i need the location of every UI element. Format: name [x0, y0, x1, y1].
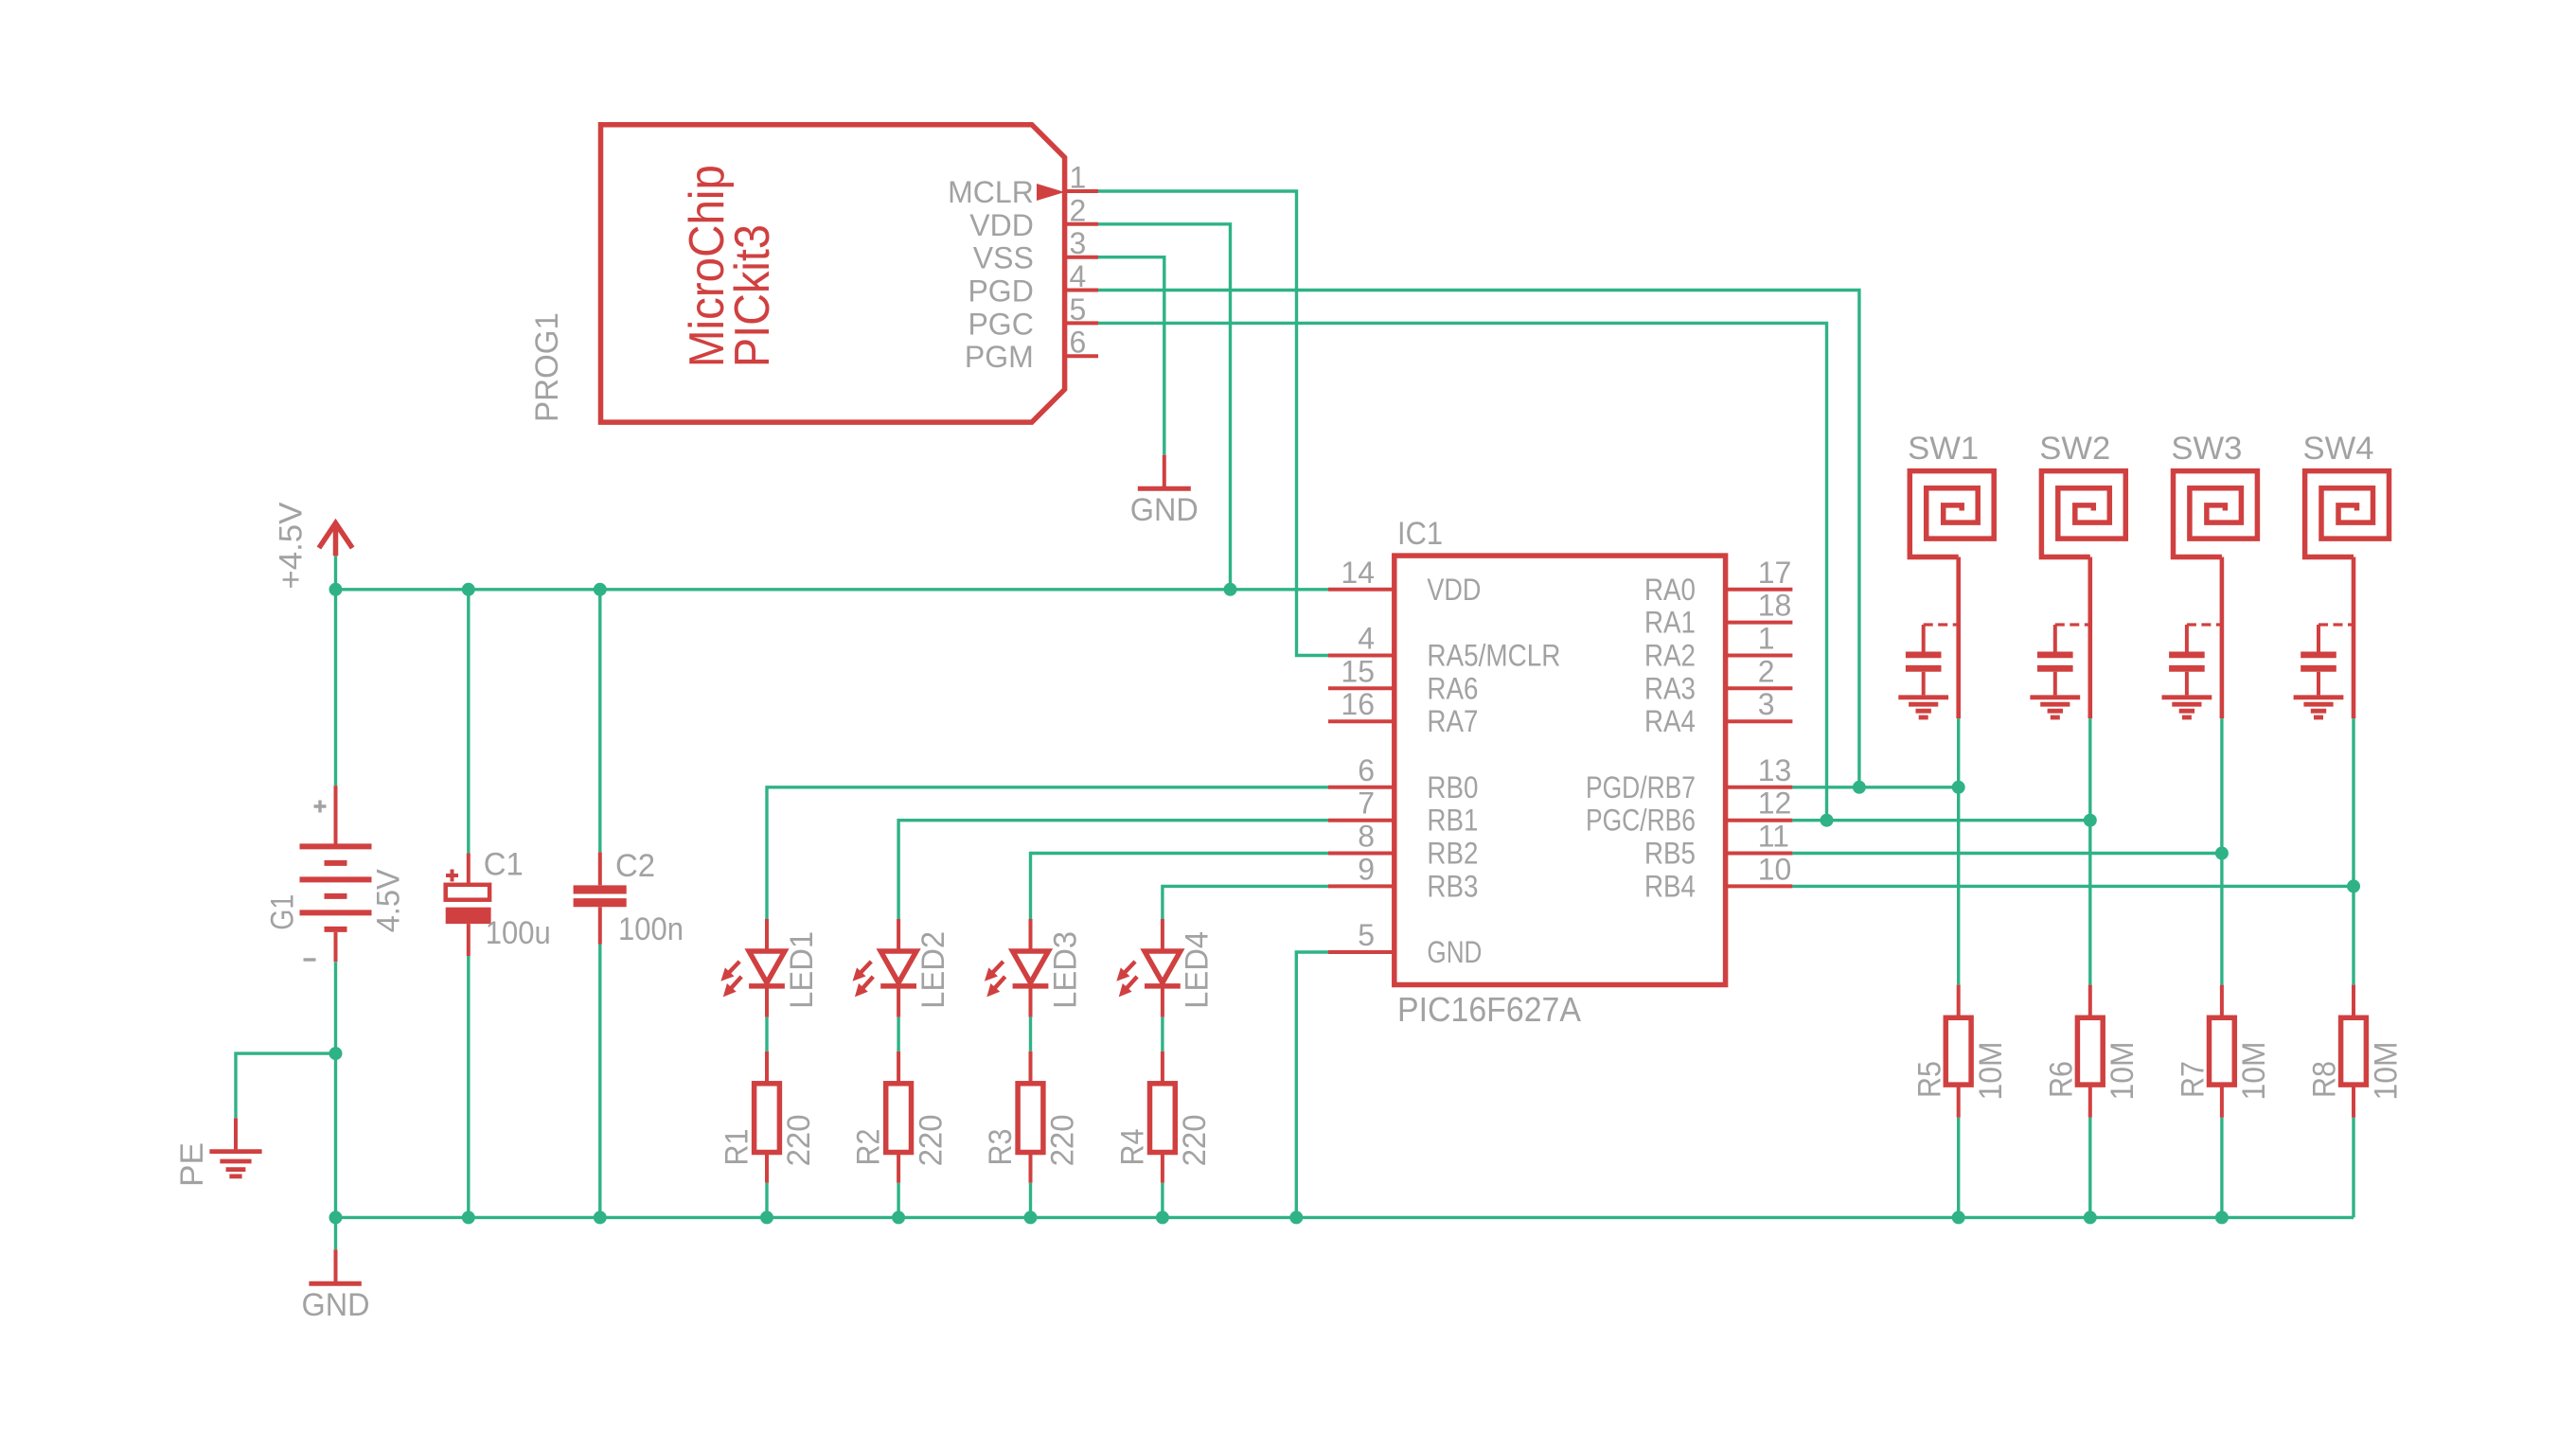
- svg-text:PROG1: PROG1: [529, 312, 565, 422]
- resistor R5 bottom pin: [1957, 1085, 1961, 1118]
- resistor R5 body: [1945, 1017, 1971, 1085]
- IC1 pin 12 PGC/RB6 stub (right): [1726, 819, 1793, 822]
- SW2 stray capacitor top lead: [2053, 625, 2057, 652]
- svg-text:17: 17: [1758, 556, 1792, 590]
- SW4 stray capacitor plates: [2301, 652, 2336, 659]
- LED 3 top pin: [1029, 919, 1033, 951]
- switch SW4 touch spiral: [2305, 471, 2389, 557]
- IC1 pin 11 RB5 stub (right): [1726, 852, 1793, 856]
- junction PGC vertical on pin12 row: [1821, 814, 1834, 827]
- resistor R2 body: [886, 1084, 912, 1153]
- svg-text:RA2: RA2: [1644, 639, 1696, 673]
- wire from supply arrow down to rail: [334, 556, 337, 590]
- IC1 pin 4 RA5/MCLR stub (left): [1328, 654, 1395, 658]
- svg-text:RB5: RB5: [1644, 837, 1696, 871]
- capacitor C1 plus plate (outline): [446, 885, 489, 900]
- resistor R4 bottom pin: [1161, 1153, 1164, 1183]
- svg-text:GND: GND: [302, 1287, 370, 1323]
- svg-text:PICkit3: PICkit3: [725, 224, 780, 367]
- SW2 stray capacitor bottom lead: [2053, 672, 2057, 696]
- switch SW2 touch spiral: [2041, 471, 2125, 557]
- wire GND symbol lead: [334, 1217, 337, 1249]
- svg-text:220: 220: [1177, 1114, 1213, 1166]
- wire C1 top lead: [467, 590, 470, 854]
- svg-text:SW4: SW4: [2303, 431, 2374, 467]
- svg-text:RA5/MCLR: RA5/MCLR: [1427, 639, 1560, 673]
- wire LED3 to R3: [1029, 1017, 1032, 1051]
- SW1 stray capacitance dashed link: [1924, 623, 1959, 626]
- junction SW3 column on IC row: [2215, 847, 2229, 860]
- wire R6 to ground rail: [2088, 1118, 2091, 1218]
- resistor R6 body: [2077, 1017, 2103, 1085]
- diode LED2 triangle: [880, 951, 916, 982]
- battery G1 top pin: [334, 786, 338, 844]
- svg-text:100n: 100n: [618, 911, 684, 947]
- ground GND under PROG1: bar: [1138, 486, 1191, 491]
- SW3 stray capacitance dashed link: [2187, 623, 2222, 626]
- SW4 stray capacitor top lead: [2317, 625, 2320, 652]
- wire C2 bottom lead: [598, 945, 601, 1218]
- svg-text:1: 1: [1070, 161, 1087, 195]
- wire net RB3: IC1 to LED4: [1163, 886, 1328, 919]
- PROG1 MCLR input arrow: [1037, 184, 1065, 201]
- wire net GND: IC1 pin5 to ground rail: [1296, 952, 1328, 1217]
- wire SW1 to row and R5: [1957, 718, 1960, 985]
- junction ground rail at C2: [594, 1210, 607, 1224]
- svg-text:18: 18: [1758, 589, 1792, 623]
- svg-text:100u: 100u: [486, 915, 551, 951]
- capacitor C1 minus plate (filled): [446, 908, 491, 924]
- svg-text:R7: R7: [2176, 1061, 2212, 1098]
- PROG1 pin 3 VSS stub: [1065, 256, 1098, 259]
- svg-text:220: 220: [781, 1114, 817, 1166]
- diode LED1 bottom pin: [765, 986, 769, 1017]
- diode LED1 cathode bar: [749, 983, 785, 989]
- SW4 earth ground bars: [2294, 695, 2344, 699]
- resistor R7 bottom pin: [2220, 1085, 2224, 1118]
- LED 4 top pin: [1161, 919, 1164, 951]
- svg-text:9: 9: [1358, 852, 1375, 886]
- battery G1 plates: [300, 843, 372, 849]
- svg-text:RA0: RA0: [1644, 573, 1696, 607]
- resistor R1 body: [755, 1084, 780, 1153]
- wire C1 bottom lead: [467, 956, 470, 1217]
- junction R5 on ground rail: [1952, 1210, 1965, 1224]
- wire net +4.5V rail to IC1 VDD pin14: [336, 588, 1329, 591]
- svg-text:2: 2: [1758, 654, 1775, 688]
- svg-text:13: 13: [1758, 753, 1792, 787]
- battery G1 bottom pin: [334, 932, 338, 962]
- svg-text:16: 16: [1341, 687, 1375, 721]
- IC U IC1 PIC16F627A outline: [1395, 556, 1726, 984]
- svg-text:12: 12: [1758, 786, 1792, 821]
- diode LED2 light arrows: [860, 962, 871, 974]
- SW3 stray capacitor bottom lead: [2185, 672, 2189, 696]
- svg-text:RB2: RB2: [1427, 837, 1478, 871]
- svg-text:PGD: PGD: [968, 274, 1033, 309]
- SW1 stray capacitor plates: [1906, 652, 1942, 659]
- battery G1 plus mark: [314, 801, 327, 813]
- svg-text:11: 11: [1758, 820, 1789, 854]
- svg-text:R2: R2: [851, 1129, 887, 1166]
- wire R8 to ground rail: [2352, 1118, 2354, 1218]
- resistor R6 top pin: [2088, 985, 2092, 1018]
- junction SW1 column on IC row: [1952, 781, 1965, 794]
- svg-text:R3: R3: [983, 1129, 1019, 1166]
- svg-text:15: 15: [1341, 654, 1375, 688]
- svg-text:4: 4: [1070, 259, 1087, 293]
- svg-text:2: 2: [1070, 193, 1087, 227]
- resistor R8 bottom pin: [2352, 1085, 2355, 1118]
- resistor R7 top pin: [2220, 985, 2224, 1018]
- svg-text:RA4: RA4: [1644, 704, 1696, 738]
- SW3 stray capacitor plates: [2169, 652, 2205, 659]
- wire R4 to ground rail: [1161, 1183, 1164, 1218]
- svg-text:7: 7: [1358, 786, 1375, 821]
- wire net RB4 to SW4: [1792, 885, 2354, 888]
- earth ground PE bars: [209, 1149, 261, 1154]
- wire net PGC: PROG1 pin5 to PGC/RB6 row: [1098, 323, 1827, 820]
- junction IC1 GND on ground rail: [1289, 1210, 1303, 1224]
- IC1 pin 6 RB0 stub (left): [1328, 786, 1395, 789]
- capacitor C2 top pin: [598, 852, 602, 885]
- LED 1 top pin: [765, 919, 769, 951]
- switch SW2 pin lead: [2088, 557, 2093, 719]
- svg-text:3: 3: [1070, 226, 1087, 260]
- wire battery bottom lead to ground rail: [334, 962, 337, 1217]
- svg-text:10M: 10M: [1973, 1042, 2009, 1101]
- svg-text:10M: 10M: [2105, 1042, 2141, 1101]
- svg-text:LED3: LED3: [1047, 931, 1083, 1009]
- diode LED1 triangle: [749, 951, 785, 982]
- svg-text:PGD/RB7: PGD/RB7: [1586, 770, 1696, 804]
- svg-text:LED4: LED4: [1180, 931, 1216, 1009]
- supply symbol +4.5V arrow: [319, 522, 352, 556]
- junction ground rail at battery: [329, 1210, 343, 1224]
- PROG1 pin 1 MCLR stub: [1065, 189, 1098, 193]
- junction ground rail at C1: [462, 1210, 475, 1224]
- resistor R2 top pin: [897, 1051, 900, 1084]
- wire SW3 to row and R7: [2220, 718, 2223, 985]
- PROG1 pin 5 PGC stub: [1065, 321, 1098, 325]
- wire net RB1: IC1 to LED2: [898, 821, 1328, 919]
- IC1 pin 9 RB3 stub (left): [1328, 884, 1395, 888]
- SW3 stray capacitor top lead: [2185, 625, 2189, 652]
- switch SW1 touch spiral: [1910, 471, 1994, 557]
- junction R4 on ground rail: [1156, 1210, 1169, 1224]
- PROG1 pin 2 VDD stub: [1065, 222, 1098, 226]
- svg-text:R1: R1: [720, 1129, 755, 1166]
- junction PGD vertical on pin13 row: [1853, 781, 1866, 794]
- svg-text:RB4: RB4: [1644, 869, 1696, 903]
- switch SW3 touch spiral: [2174, 471, 2258, 557]
- resistor R1 bottom pin: [765, 1153, 769, 1183]
- resistor R3 bottom pin: [1029, 1153, 1033, 1183]
- IC1 pin 15 RA6 stub (left): [1328, 686, 1395, 690]
- ground GND bottom: lead: [334, 1249, 338, 1281]
- SW3 earth ground bars: [2162, 695, 2212, 699]
- IC1 pin 10 RB4 stub (right): [1726, 884, 1793, 888]
- diode LED4 bottom pin: [1161, 986, 1164, 1017]
- junction R6 on ground rail: [2084, 1210, 2097, 1224]
- wire R5 to ground rail: [1957, 1118, 1960, 1218]
- resistor R1 top pin: [765, 1051, 769, 1084]
- earth ground PE lead: [234, 1118, 238, 1149]
- diode LED4 light arrows: [1124, 962, 1135, 974]
- IC1 pin 8 RB2 stub (left): [1328, 852, 1395, 856]
- svg-text:SW3: SW3: [2171, 431, 2242, 467]
- SW1 stray capacitor bottom lead: [1922, 672, 1926, 696]
- svg-text:6: 6: [1070, 326, 1087, 360]
- junction R2 on ground rail: [892, 1210, 905, 1224]
- resistor R3 top pin: [1029, 1051, 1033, 1084]
- wire R2 to ground rail: [897, 1183, 899, 1218]
- junction R7 on ground rail: [2215, 1210, 2229, 1224]
- wire LED4 to R4: [1161, 1017, 1164, 1051]
- junction rail at C1: [462, 583, 475, 596]
- svg-text:SW1: SW1: [1908, 431, 1979, 467]
- junction SW2 column on IC row: [2084, 814, 2097, 827]
- svg-text:C1: C1: [484, 847, 524, 883]
- IC1 pin 13 PGD/RB7 stub (right): [1726, 786, 1793, 789]
- wire net PGD/RB7 to SW1: [1792, 786, 1958, 788]
- SW4 stray capacitance dashed link: [2318, 623, 2354, 626]
- SW4 stray capacitor bottom lead: [2317, 672, 2320, 696]
- resistor R2 bottom pin: [897, 1153, 900, 1183]
- svg-text:PIC16F627A: PIC16F627A: [1397, 990, 1581, 1029]
- resistor R6 bottom pin: [2088, 1085, 2092, 1118]
- IC1 pin 17 RA0 stub (right): [1726, 588, 1793, 592]
- svg-text:PGC/RB6: PGC/RB6: [1586, 804, 1696, 838]
- svg-text:8: 8: [1358, 820, 1375, 854]
- svg-text:RA1: RA1: [1644, 606, 1696, 640]
- svg-text:R8: R8: [2307, 1061, 2343, 1098]
- svg-text:R4: R4: [1115, 1129, 1151, 1166]
- svg-text:10M: 10M: [2368, 1042, 2404, 1101]
- wire C2 top lead: [598, 590, 601, 853]
- IC1 pin 3 RA4 stub (right): [1726, 719, 1793, 723]
- wire R7 to ground rail: [2220, 1118, 2223, 1218]
- diode LED2 cathode bar: [880, 983, 916, 989]
- wire net RB0: IC1 to LED1: [767, 787, 1328, 919]
- svg-text:10M: 10M: [2236, 1042, 2272, 1101]
- svg-text:SW2: SW2: [2039, 431, 2110, 467]
- svg-text:220: 220: [913, 1114, 949, 1166]
- wire LED1 to R1: [765, 1017, 768, 1051]
- svg-text:G1: G1: [265, 894, 301, 930]
- battery G1 minus mark: [304, 958, 316, 961]
- resistor R5 top pin: [1957, 985, 1961, 1018]
- svg-text:5: 5: [1070, 292, 1087, 327]
- wire SW2 to row and R6: [2088, 718, 2091, 985]
- SW2 stray capacitor plates: [2037, 652, 2073, 659]
- diode LED3 cathode bar: [1013, 983, 1049, 989]
- switch SW4 pin lead: [2352, 557, 2356, 719]
- wire LED2 to R2: [897, 1017, 899, 1051]
- svg-text:14: 14: [1341, 556, 1375, 590]
- resistor R8 body: [2341, 1017, 2367, 1085]
- svg-text:MCLR: MCLR: [948, 175, 1034, 209]
- wire battery top lead: [334, 590, 337, 786]
- resistor R3 body: [1018, 1084, 1043, 1153]
- junction rail at C2: [594, 583, 607, 596]
- SW1 stray capacitor top lead: [1922, 625, 1926, 652]
- diode LED4 cathode bar: [1145, 983, 1181, 989]
- wire net PGC/RB6 to SW2: [1792, 819, 2089, 822]
- capacitor C1 bottom pin: [467, 924, 471, 956]
- svg-text:220: 220: [1045, 1114, 1081, 1166]
- switch SW3 pin lead: [2220, 557, 2225, 719]
- junction rail at PROG1 VDD branch: [1224, 583, 1237, 596]
- svg-text:3: 3: [1758, 687, 1775, 721]
- diode LED3 light arrows: [992, 962, 1004, 974]
- svg-text:1: 1: [1758, 622, 1775, 656]
- wire R1 to ground rail: [765, 1183, 768, 1218]
- svg-text:IC1: IC1: [1397, 516, 1443, 552]
- SW1 earth ground bars: [1898, 695, 1948, 699]
- svg-text:PGC: PGC: [968, 307, 1033, 341]
- svg-text:VSS: VSS: [973, 241, 1034, 275]
- svg-text:C2: C2: [615, 848, 655, 884]
- svg-text:R6: R6: [2043, 1061, 2079, 1098]
- wire R3 to ground rail: [1029, 1183, 1032, 1218]
- diode LED4 triangle: [1145, 951, 1181, 982]
- svg-text:6: 6: [1358, 753, 1375, 787]
- IC1 pin 7 RB1 stub (left): [1328, 819, 1395, 822]
- junction PE branch: [329, 1047, 343, 1060]
- junction R3 on ground rail: [1024, 1210, 1038, 1224]
- IC1 pin 5 GND stub (left): [1328, 950, 1395, 954]
- svg-text:RA3: RA3: [1644, 671, 1696, 705]
- ground GND bottom: bar: [309, 1281, 361, 1286]
- ground GND under PROG1: lead: [1163, 455, 1166, 488]
- wire net RB5 to SW3: [1792, 852, 2221, 855]
- svg-text:VDD: VDD: [1427, 573, 1481, 607]
- svg-text:RB0: RB0: [1427, 770, 1478, 804]
- svg-text:VDD: VDD: [969, 208, 1034, 242]
- PROG1 pin 6 PGM stub: [1065, 354, 1098, 358]
- resistor R4 body: [1150, 1084, 1176, 1153]
- LED 2 top pin: [897, 919, 900, 951]
- wire net GND branch: PROG1 pin3 VSS down to GND symbol: [1098, 257, 1164, 455]
- IC1 pin 14 VDD stub (left): [1328, 588, 1395, 592]
- IC1 pin 18 RA1 stub (right): [1726, 621, 1793, 625]
- capacitor C2 bottom pin: [598, 907, 602, 944]
- resistor R8 top pin: [2352, 985, 2355, 1018]
- junction R1 on ground rail: [760, 1210, 773, 1224]
- IC1 pin 1 RA2 stub (right): [1726, 654, 1793, 658]
- diode LED2 bottom pin: [897, 986, 900, 1017]
- svg-text:PGM: PGM: [965, 340, 1034, 374]
- svg-text:RB1: RB1: [1427, 804, 1478, 838]
- capacitor C1 top pin: [467, 853, 471, 884]
- wire net PGD: PROG1 pin4 to PGD/RB7 row: [1098, 291, 1859, 787]
- wire net +4.5V branch: PROG1 pin2 VDD down to supply rail: [1098, 224, 1231, 590]
- IC1 pin 16 RA7 stub (left): [1328, 719, 1395, 723]
- svg-text:5: 5: [1358, 918, 1375, 952]
- diode LED3 bottom pin: [1029, 986, 1033, 1017]
- wire ground rail: [336, 1216, 2354, 1219]
- PROG1 pin 4 PGD stub: [1065, 289, 1098, 292]
- svg-text:GND: GND: [1427, 935, 1482, 969]
- svg-text:RA7: RA7: [1427, 704, 1478, 738]
- svg-text:RA6: RA6: [1427, 671, 1478, 705]
- switch SW1 pin lead: [1956, 557, 1961, 719]
- svg-text:GND: GND: [1130, 492, 1199, 528]
- wire net to PE earth: [236, 1053, 336, 1118]
- wire net MCLR: PROG1 pin1 to IC1 RA5/MCLR: [1098, 191, 1328, 656]
- junction rail at battery column: [329, 583, 343, 596]
- svg-text:RB3: RB3: [1427, 869, 1478, 903]
- capacitor C1 plus mark: [446, 870, 458, 882]
- svg-text:10: 10: [1758, 852, 1792, 886]
- svg-text:LED2: LED2: [915, 931, 951, 1009]
- SW2 stray capacitance dashed link: [2055, 623, 2090, 626]
- resistor R7 body: [2210, 1017, 2235, 1085]
- wire SW4 to row and R8: [2352, 718, 2354, 985]
- diode LED1 light arrows: [728, 962, 739, 974]
- capacitor C2 plates: [574, 885, 627, 893]
- SW2 earth ground bars: [2030, 695, 2080, 699]
- svg-text:PE: PE: [174, 1142, 210, 1187]
- svg-text:LED1: LED1: [784, 931, 820, 1009]
- svg-text:+4.5V: +4.5V: [274, 502, 310, 589]
- svg-text:4: 4: [1358, 622, 1375, 656]
- diode LED3 triangle: [1013, 951, 1049, 982]
- resistor R4 top pin: [1161, 1051, 1164, 1084]
- wire net RB2: IC1 to LED3: [1031, 854, 1329, 920]
- svg-text:R5: R5: [1911, 1061, 1947, 1098]
- IC1 pin 2 RA3 stub (right): [1726, 686, 1793, 690]
- svg-text:4.5V: 4.5V: [370, 869, 406, 932]
- junction SW4 column on IC row: [2347, 879, 2360, 892]
- connector PROG1 MicroChip PICkit3 outline: [601, 125, 1065, 422]
